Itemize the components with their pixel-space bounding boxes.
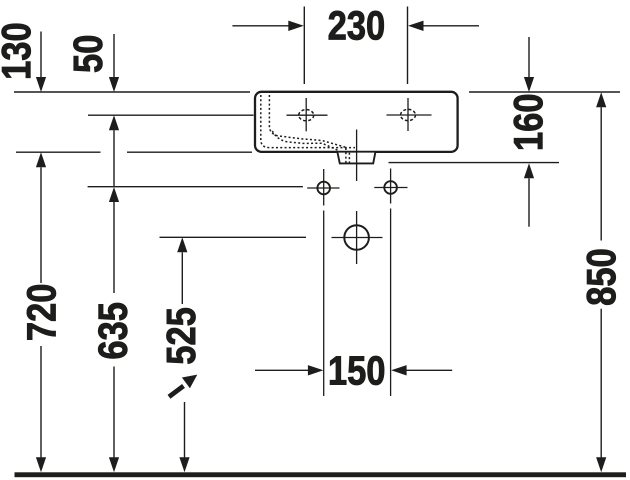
dimension 230 arrowhead right	[408, 21, 424, 31]
dimension 635 arrowhead down at floor	[109, 457, 119, 472]
dimension 850 arrowhead down at floor	[596, 457, 606, 472]
dimension label 50	[73, 36, 102, 72]
tap hole left dashed ellipse	[299, 110, 314, 121]
dimension 150 arrowhead right pointing left	[391, 365, 407, 375]
dimension 720 arrowhead up at basin underside	[36, 152, 46, 167]
dimension label 525	[167, 308, 196, 363]
drain circle	[344, 225, 369, 250]
drain circle crosshair horizontal	[332, 237, 383, 239]
dimension 230 extension line left	[303, 7, 305, 85]
dimension 50 tail to 635 line	[113, 130, 115, 186]
wire basin underside reference line right	[127, 151, 252, 153]
dimension 160 arrowhead down at rim	[524, 77, 534, 92]
dimension 150 arrowhead left pointing right	[308, 365, 324, 375]
drain pipe hidden dotted left	[345, 148, 347, 163]
tap hole right crosshair vertical	[407, 98, 409, 131]
dimension 850 arrowhead up at rim	[596, 92, 606, 107]
dimension 850 line lower	[600, 309, 602, 458]
dimension label 130	[2, 24, 31, 78]
mounting hole right centre line	[390, 169, 392, 397]
tap hole right crosshair horizontal	[387, 114, 432, 116]
dimension 130 arrowhead down	[36, 77, 46, 92]
drain spigot	[338, 153, 376, 164]
dimension 850 line	[600, 107, 602, 240]
drain pipe hidden dotted right	[348, 153, 350, 163]
wire 635 reference line	[88, 186, 303, 188]
dimension 50 arrowhead down	[109, 77, 119, 92]
tap hole right dashed ellipse	[401, 109, 416, 120]
dimension 230 arrowhead left	[288, 21, 304, 31]
dimension 50 arrowhead up at 50 line	[109, 115, 119, 130]
wire 525 reference line	[160, 236, 307, 238]
dimension 160 tail	[528, 178, 530, 226]
dimension label 850	[587, 250, 616, 305]
wire rim reference line right	[469, 91, 620, 93]
dimension 230 extension line right	[407, 7, 409, 85]
basin interior hidden wall outer dotted	[261, 95, 355, 148]
floor line	[15, 472, 627, 477]
dimension label 635	[98, 303, 127, 358]
mounting hole left	[317, 182, 330, 195]
dimension 230 arrow line left	[232, 25, 289, 27]
basin interior hidden floor lower dotted	[272, 131, 339, 151]
dimension 160 arrowhead up at spigot bottom line	[524, 163, 534, 178]
adjustable height arrow symbol	[169, 375, 197, 397]
dimension 230 arrow line right	[423, 25, 479, 27]
centre line upper segment	[356, 130, 358, 182]
basin interior hidden wall inner dotted	[269, 95, 346, 147]
wire 50 reference line	[88, 114, 254, 116]
dimension label 160	[514, 95, 543, 149]
mounting hole left crosshair horizontal	[307, 187, 339, 189]
dimension label 150	[330, 356, 384, 385]
dimension 720 line	[40, 167, 42, 283]
dimension label 720	[27, 285, 56, 340]
dimension 130 line upper	[40, 32, 42, 78]
basin outline	[255, 92, 458, 152]
mounting hole right	[384, 181, 397, 194]
dimension 50 line upper	[113, 34, 115, 78]
dimension 525 line	[181, 252, 183, 304]
wire rim reference line left	[14, 91, 250, 93]
dimension 635 line lower	[113, 367, 115, 458]
wire basin underside reference line left	[16, 151, 101, 153]
centre line lower segment	[356, 211, 358, 264]
dimension 150 arrow line right	[406, 369, 452, 371]
mounting hole left centre line	[323, 169, 325, 396]
dimension 160 line upper	[528, 37, 530, 78]
mounting hole right crosshair horizontal	[374, 187, 407, 189]
tap hole left crosshair horizontal	[287, 114, 328, 116]
dimension label 230	[329, 11, 384, 40]
dimension 525 arrowhead down at floor	[179, 457, 189, 472]
dimension 150 arrow line left	[255, 369, 309, 371]
dimension 635 line	[113, 202, 115, 293]
dimension 720 arrowhead down at floor	[36, 457, 46, 472]
wire spigot bottom reference line	[389, 162, 560, 164]
dimension 525 arrowhead up at 525 line	[177, 237, 187, 252]
dimension 525 line lower	[184, 402, 186, 458]
dimension 635 arrowhead up at 635 line	[109, 187, 119, 202]
tap hole left crosshair vertical	[305, 98, 307, 131]
dimension 720 line lower	[40, 346, 42, 458]
